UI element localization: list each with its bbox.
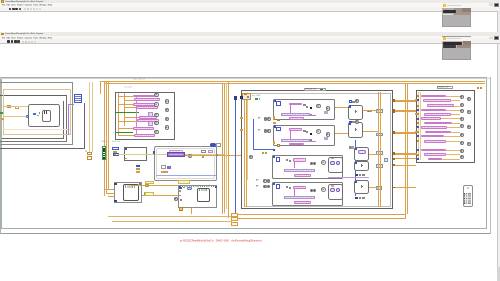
- top orange wire 2: [104, 82, 485, 85]
- lavender wire: [328, 176, 369, 179]
- blue cluster icon: [74, 94, 83, 103]
- magenta connector h: [310, 114, 316, 117]
- case box 2 inner case box: [273, 125, 335, 146]
- case box 3 lavender wide VI: [284, 169, 315, 172]
- window 1 title text: [5, 1, 44, 3]
- slate label box: [376, 109, 383, 112]
- blue vertical wire: [234, 100, 237, 218]
- write VI pink row: [421, 149, 447, 152]
- window 1 menu bar: [0, 3, 500, 7]
- M1 exit wire: [369, 153, 377, 156]
- case box 1 glyphs: [303, 104, 305, 106]
- window 2 menu bar: [0, 36, 500, 40]
- write VI pink row: [425, 131, 451, 134]
- glyph row below M2: [355, 174, 358, 177]
- purple small square: [167, 166, 170, 169]
- window 2 nav square: [494, 36, 499, 40]
- window 1 toolbar: [0, 7, 500, 11]
- x+ row D: [256, 185, 259, 187]
- outer gray while loop top faint: [0, 77, 490, 80]
- box2 left tunnel: [273, 141, 275, 143]
- left cluster loop L2: [0, 82, 73, 144]
- case box 4 small circle pair: [310, 189, 313, 192]
- stacked icons right of E2: [136, 165, 140, 168]
- write VI pink row: [421, 126, 447, 129]
- inner right vertical wires: [377, 92, 380, 207]
- G circle col1: [460, 155, 464, 159]
- node box B1: [348, 105, 363, 120]
- case box 1 terminal icon: [276, 101, 280, 105]
- outer gray while loop left edge: [0, 77, 2, 233]
- case box 4 lavender wide VI: [284, 196, 315, 199]
- case box 4 rounded node box: [328, 184, 343, 200]
- bottom label boxes: [231, 213, 238, 217]
- write VI pink row: [424, 122, 452, 125]
- bottom wire A: [232, 213, 406, 216]
- case box 4 glyph bits: [286, 186, 288, 188]
- case box 2 circle B: [326, 132, 331, 137]
- G circle col2: [467, 142, 471, 146]
- E2 header stripe: [125, 185, 136, 187]
- top-right junction dots: [477, 87, 479, 89]
- lavender oval VI: [358, 150, 366, 154]
- circle icon outside G2: [174, 197, 178, 201]
- green wire 2: [116, 131, 133, 134]
- G circle col2: [467, 125, 471, 129]
- mid column vertical wires: [221, 83, 224, 214]
- wire label 2: [145, 192, 154, 195]
- case box 1 blue corner: [274, 100, 276, 102]
- case box 1 pink VI top: [289, 103, 302, 106]
- glyph row above B2: [349, 121, 352, 124]
- M3 exit wire: [369, 186, 377, 189]
- case box 3 inner case box: [272, 155, 343, 179]
- slate label box: [376, 151, 383, 155]
- glyph pair above M1: [349, 146, 351, 148]
- case box 2 glyphs: [303, 130, 305, 132]
- frame F inner line: [156, 148, 215, 179]
- slate label box: [376, 186, 382, 190]
- case box 1 bottom-left icon: [277, 119, 281, 122]
- case box 2 lavender wide VI: [281, 139, 310, 142]
- G circle col1: [460, 149, 464, 153]
- F tunnel: [216, 154, 218, 156]
- orange band vertical 2: [105, 82, 108, 193]
- case box 2 violet box: [324, 137, 328, 140]
- wire label 1: [145, 181, 154, 184]
- G circle col1: [460, 117, 464, 121]
- red error text: [180, 240, 266, 242]
- G1 to G2 wire 2: [142, 194, 178, 197]
- G2 inner thick box: [197, 188, 210, 202]
- yellow wire horizontal: [117, 153, 224, 156]
- case box 1 circle B: [326, 106, 331, 111]
- G2 exit arrow: [215, 186, 217, 188]
- case box 3 blue corner: [273, 156, 275, 158]
- case box 2 gray box: [310, 139, 313, 141]
- case box 2 pink VI top: [289, 128, 302, 131]
- G tunnel: [415, 113, 417, 115]
- main right scrollbar: [497, 44, 500, 281]
- write VI pink row: [424, 113, 451, 116]
- frame B wires: [117, 93, 120, 135]
- G2 bottom terminal: [179, 207, 183, 210]
- G circle col1: [460, 103, 464, 107]
- slate label box: [376, 133, 383, 137]
- outer teal sequence frame: [1, 77, 487, 229]
- magenta connector v: [289, 131, 292, 139]
- RS232C W selector label: [437, 86, 454, 90]
- case box 1 violet box: [324, 111, 328, 114]
- left edge terminal green: [0, 112, 3, 115]
- exit wire: [393, 131, 416, 134]
- case box 1 dark square: [310, 107, 312, 109]
- dark cluster wire vertical: [83, 103, 86, 149]
- G circle col1: [460, 95, 464, 99]
- left cluster loop L3: [0, 95, 67, 141]
- G2 blue oval: [187, 187, 191, 189]
- G1 to G2 wire 1: [131, 184, 178, 187]
- G circle col2: [467, 97, 471, 101]
- RS232C W case frame: [416, 90, 475, 163]
- box exit wire: [335, 106, 348, 109]
- window 1 toolbar icons: [9, 8, 11, 11]
- case box 3 node marks: [331, 158, 334, 159]
- frame B magenta connector: [135, 97, 138, 135]
- case box 3 small circle pair: [310, 162, 313, 165]
- exit wire: [393, 186, 416, 189]
- magenta connector v: [289, 105, 292, 113]
- inner box marks: [44, 111, 45, 114]
- G tunnel: [415, 153, 417, 155]
- G tunnel: [415, 99, 417, 101]
- exit wire: [393, 132, 416, 135]
- white rounded box: [28, 104, 60, 127]
- case box 1 lavender wide VI: [281, 113, 310, 116]
- write VI pink row: [421, 95, 447, 98]
- write VI pink row: [424, 140, 446, 143]
- green constant: [255, 98, 258, 101]
- window 1 title bar: [0, 0, 500, 3]
- glyph row above B1: [349, 100, 352, 103]
- tiny circle pair: [367, 110, 369, 112]
- E2 inner thick box: [123, 184, 139, 202]
- green wire 1: [116, 111, 139, 114]
- write VI pink row: [424, 153, 446, 156]
- bottom wire B: [232, 217, 405, 220]
- top orange wire 1: [100, 80, 485, 83]
- wire from VI to F right edge: [185, 154, 217, 157]
- G2 top green dashes: [180, 186, 214, 187]
- F left tunnel: [153, 151, 155, 153]
- left edge terminal orange: [1, 118, 4, 120]
- band to E2 wires: [104, 188, 114, 191]
- small front panel window A: [442, 3, 472, 27]
- left cluster loop L3b right edge: [63, 101, 64, 139]
- window 1 nav square: [494, 3, 499, 7]
- faint blue wire in F: [156, 174, 216, 177]
- window 1 app icon: [1, 0, 4, 3]
- B1 exit wire: [363, 109, 377, 112]
- exit wire: [393, 110, 416, 113]
- exit wire: [393, 153, 416, 156]
- case box 4 blue corner: [273, 183, 275, 185]
- x+ row A: [258, 117, 261, 119]
- case box 3 violet circle pair: [330, 161, 334, 165]
- dark cluster wire bottom: [0, 147, 85, 150]
- light tan vertical pair: [88, 82, 91, 152]
- exit wire: [393, 157, 416, 160]
- frame B (command VI stack): [115, 92, 176, 140]
- E2 corner squares: [114, 183, 116, 185]
- orange band vertical 3: [107, 82, 110, 190]
- blue oval icon: [210, 143, 216, 147]
- write VI pink row: [421, 109, 447, 112]
- bottom wire D left: [112, 220, 232, 223]
- case box 4 node marks: [331, 185, 334, 186]
- circle after purple VI: [188, 154, 192, 158]
- case box 3 pink VI top: [293, 158, 307, 161]
- orange marks: [161, 171, 166, 173]
- value box 2 lavender: [208, 150, 214, 153]
- exit wire: [393, 152, 416, 155]
- exit wire: [393, 100, 416, 103]
- write VI pink row: [427, 104, 455, 107]
- x+ row B: [258, 129, 261, 131]
- case box 1 gray box: [310, 114, 313, 116]
- case box 1 inner case box: [273, 99, 335, 120]
- x1 icon: [161, 165, 166, 169]
- tunnel between boxes: [273, 122, 276, 124]
- node box M2: [354, 161, 369, 171]
- small icon yellow: [7, 105, 11, 108]
- violet wire horizontal: [68, 103, 74, 106]
- circle icon left margin: [249, 155, 254, 160]
- case box 3 circle C: [321, 160, 326, 165]
- magenta connector v: [293, 189, 296, 196]
- frame B label: [133, 78, 145, 80]
- case box 4 terminal icon: [276, 184, 280, 188]
- magenta connector v: [293, 162, 296, 169]
- E2 right yellow boxes: [145, 184, 149, 187]
- case box 3 terminal icon: [276, 157, 280, 161]
- blue vertical in frame right half: [354, 140, 357, 196]
- case box 4 pink VI top: [293, 186, 307, 189]
- slate label box: [384, 158, 388, 162]
- frame F: [154, 146, 217, 181]
- G circle col1: [460, 133, 464, 137]
- RS232C R selector label: [304, 88, 327, 92]
- purple VI icon: [167, 152, 185, 156]
- G2 header stripe: [199, 189, 208, 191]
- frame inner-left vertical wires: [243, 100, 246, 207]
- blue circle constant: [26, 115, 29, 118]
- case box 3 pink VI bottom: [294, 174, 311, 177]
- slate label box: [376, 164, 383, 168]
- left cluster tan frame: [3, 89, 71, 135]
- box G2: [178, 185, 217, 208]
- exit wire: [393, 99, 416, 102]
- icon cluster left of array: [87, 152, 92, 156]
- box E2 outer: [114, 182, 142, 203]
- barcode decoration icon: [463, 185, 473, 207]
- window 2 title text: [5, 33, 43, 35]
- outer gray while loop right edge: [489, 77, 492, 233]
- cluster wire h1: [4, 105, 28, 108]
- small icon orange: [15, 106, 19, 109]
- window 2 title bar: [0, 32, 500, 36]
- yellow VI icon top-left of frame: [242, 93, 251, 101]
- case box 2 bottom-left icon: [277, 144, 281, 147]
- box exit wire: [335, 132, 348, 135]
- G tunnel: [415, 131, 417, 133]
- frame B circles col2: [165, 99, 169, 103]
- case box 2 pink VI bottom: [289, 143, 304, 146]
- case box 2 circle A: [316, 129, 321, 134]
- cluster glyph blue: [33, 113, 35, 115]
- node box M3: [354, 180, 369, 194]
- violet wire vertical: [67, 104, 70, 135]
- outer gray while loop bottom: [0, 233, 491, 234]
- small front panel window B: [442, 36, 472, 60]
- frame B pink VI rows: [133, 95, 155, 98]
- x+ row C: [256, 179, 259, 181]
- case box 1 pink VI bottom: [289, 117, 304, 120]
- case box 3 glyph bits: [286, 159, 288, 161]
- cluster wire h2: [4, 115, 26, 118]
- yellow wire vertical: [223, 154, 226, 214]
- box1 left tunnel: [273, 116, 275, 118]
- small yellow box: [202, 156, 205, 158]
- frame B lavender block: [148, 112, 154, 126]
- box E1: [124, 147, 147, 160]
- frame G internal verticals: [417, 92, 420, 160]
- write VI pink row: [421, 135, 444, 138]
- window 2 toolbar icons: [7, 40, 10, 43]
- node box M1: [354, 147, 369, 161]
- window separator: [0, 31, 500, 34]
- case box 3 rounded node box: [328, 157, 343, 173]
- terminal stack: [112, 147, 118, 150]
- inner small rounded box: [42, 110, 52, 122]
- top wire drop left: [99, 81, 102, 93]
- G circle col1: [460, 109, 464, 113]
- left cluster inner tan line: [3, 128, 70, 131]
- RS232C R case frame: [241, 90, 393, 209]
- case box 4 violet circle pair: [330, 188, 334, 192]
- write VI pink row: [428, 158, 442, 161]
- purple VI label: [169, 150, 183, 153]
- yellow label above G2: [178, 180, 190, 184]
- glyph row below M3: [355, 197, 358, 200]
- case box 2 blue corner: [274, 125, 276, 127]
- yellow pair icons: [262, 152, 264, 154]
- frame B circles col1: [154, 93, 158, 97]
- G circle col1: [460, 124, 464, 128]
- exit wire: [393, 164, 416, 167]
- node box B2: [348, 122, 363, 138]
- write VI pink row: [421, 117, 442, 120]
- G2 terminal drop: [190, 208, 193, 214]
- window 1 right scrollbar: [497, 11, 499, 31]
- label beside blue oval: [216, 143, 221, 146]
- B2 exit wire: [363, 130, 377, 133]
- orange band vertical 1: [103, 82, 106, 196]
- frame left tunnels: [240, 96, 243, 99]
- tiny label: [252, 95, 260, 97]
- blue bit: [273, 149, 275, 151]
- VISA labels: [101, 141, 108, 143]
- G2 left terminal bits: [179, 190, 181, 192]
- magenta connector h: [310, 140, 316, 143]
- case box 2 terminal icon: [276, 127, 280, 131]
- blue source terminal: [234, 96, 237, 100]
- window 2 app icon: [1, 33, 4, 36]
- cluster glyph gray: [37, 115, 39, 117]
- case box 2 dark square: [310, 133, 312, 135]
- G circle col2: [467, 110, 471, 114]
- left cluster loop L3b bottom edge: [2, 138, 64, 139]
- bottom wire C left: [108, 215, 232, 218]
- green array constant: [102, 146, 107, 159]
- window 2 toolbar: [0, 39, 500, 43]
- case box 4 pink VI bottom: [294, 201, 311, 204]
- corridor vertical wires: [404, 83, 407, 218]
- G circle col1: [460, 141, 464, 145]
- case box 4 inner case box: [272, 182, 343, 206]
- case box 4 circle C: [321, 187, 326, 192]
- case box 1 circle A: [316, 104, 321, 109]
- value box 1: [201, 150, 207, 153]
- G2 blue corner: [179, 186, 182, 189]
- write VI pink row: [423, 99, 451, 102]
- exit wire: [393, 109, 416, 112]
- blue wire inside frame: [252, 119, 255, 149]
- wire F to RS232C frame: [217, 154, 241, 157]
